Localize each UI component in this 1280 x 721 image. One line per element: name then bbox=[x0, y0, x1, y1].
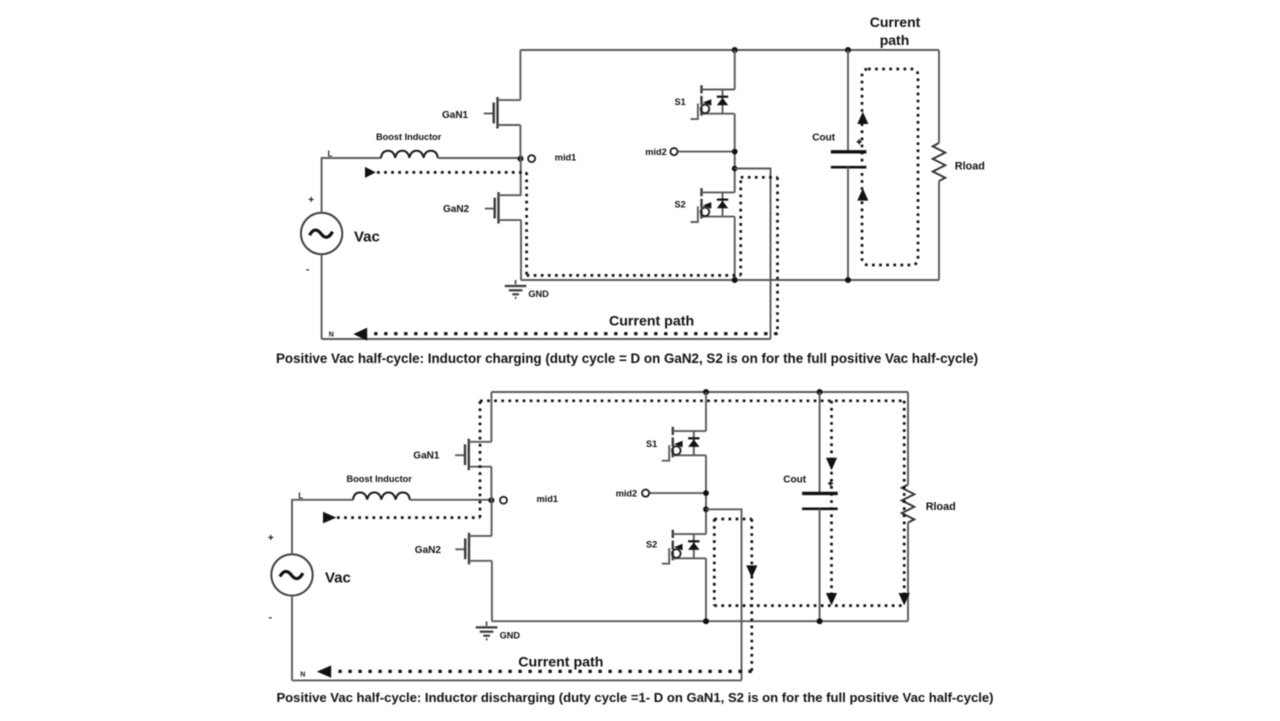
node stub junction dot (top) bbox=[732, 166, 738, 172]
node mid1 junction dot (top) bbox=[518, 156, 524, 162]
svg-text:Boost Inductor: Boost Inductor bbox=[347, 474, 413, 484]
wire stub from S branch to return rail (top) bbox=[735, 169, 771, 339]
current arrow right after inductor (bottom) bbox=[323, 512, 336, 524]
node mid1 junction dot (bottom) bbox=[488, 497, 494, 503]
wire top rail to Cout (top) bbox=[847, 50, 849, 151]
node Cout bridge junction dot (top) bbox=[845, 277, 851, 283]
transistor S2 (top) bbox=[691, 188, 735, 222]
transistor GaN1 (top) bbox=[484, 97, 521, 129]
transistor S1 (top) bbox=[691, 85, 735, 119]
svg-text:S2: S2 bbox=[646, 540, 657, 550]
svg-text:mid1: mid1 bbox=[555, 152, 576, 162]
wire mid1 to GaN2 drain (bottom) bbox=[491, 500, 493, 536]
svg-text:Cout: Cout bbox=[812, 133, 835, 144]
inductor Boost Inductor (top) bbox=[381, 151, 438, 158]
svg-text:mid1: mid1 bbox=[537, 494, 558, 504]
wire top rail to Cout (bottom) bbox=[819, 392, 821, 493]
node S-branch top rail junction (top) bbox=[732, 47, 738, 53]
wire top rail (bottom) bbox=[491, 391, 908, 393]
wire bridge bottom rail (bottom) bbox=[492, 620, 908, 622]
svg-text:GaN1: GaN1 bbox=[442, 110, 469, 121]
svg-text:path: path bbox=[880, 32, 910, 48]
svg-text:-: - bbox=[269, 612, 272, 623]
terminal mid1 open circle (top) bbox=[528, 155, 535, 162]
svg-text:+: + bbox=[268, 533, 274, 544]
wire dotted Cout-Rload loop rectangle (top) bbox=[862, 69, 918, 265]
svg-text:Boost Inductor: Boost Inductor bbox=[376, 132, 442, 142]
ground GND (bottom) bbox=[476, 621, 498, 639]
transistor S2 (bottom) bbox=[662, 530, 706, 564]
wire right rail lower (top) bbox=[938, 181, 940, 280]
wire dotted top rail path (bottom) bbox=[480, 399, 904, 402]
wire dotted bottom of output loop (bottom) bbox=[714, 604, 904, 607]
ac source Vac (bottom) bbox=[271, 554, 312, 595]
node Cout top rail junction dot (top) bbox=[845, 47, 851, 53]
wire Cout to bridge rail (top) bbox=[847, 167, 849, 280]
polarity plus of Cout (bottom) bbox=[828, 481, 833, 486]
polarity plus of Cout (top) bbox=[857, 139, 862, 144]
wire GaN1 source to mid1 (top) bbox=[519, 125, 521, 159]
wire dotted along bridge rail (top) bbox=[527, 274, 741, 277]
svg-text:L: L bbox=[298, 491, 303, 500]
svg-text:-: - bbox=[306, 265, 309, 276]
current arrow left on return path (bottom) bbox=[317, 665, 331, 677]
node mid2 junction dot (top) bbox=[732, 149, 738, 155]
wire dotted up beside S2 (top) bbox=[739, 177, 742, 275]
svg-text:GaN1: GaN1 bbox=[413, 451, 440, 462]
wire dotted left side of S2 loop (bottom) bbox=[713, 519, 716, 606]
transistor GaN2 (top) bbox=[485, 192, 522, 224]
wire dotted top of S2 loop (bottom) bbox=[714, 518, 752, 521]
svg-text:Current path: Current path bbox=[609, 313, 694, 329]
inductor Boost Inductor (bottom) bbox=[353, 493, 410, 500]
wire bridge bottom rail (top) bbox=[521, 279, 939, 281]
resistor Rload (bottom) bbox=[902, 485, 915, 523]
wire dotted bottom return path (bottom) bbox=[332, 670, 752, 673]
wire GaN2 source to bridge rail (top) bbox=[520, 220, 522, 280]
terminal mid2 open circle (bottom) bbox=[642, 490, 649, 497]
current arrow left on return path (top) bbox=[353, 328, 367, 341]
terminal mid2 open circle (top) bbox=[670, 148, 677, 155]
svg-text:N: N bbox=[329, 331, 334, 338]
current arrow up in loop upper (top) bbox=[857, 112, 868, 124]
svg-text:GaN2: GaN2 bbox=[415, 545, 442, 556]
svg-text:S1: S1 bbox=[675, 97, 686, 107]
wire Vac bottom lead (top) bbox=[321, 254, 323, 339]
wire dotted down to return path (top) bbox=[776, 177, 779, 333]
wire dotted over S2 loop top (top) bbox=[741, 176, 778, 179]
wire Cout to bridge rail (bottom) bbox=[819, 509, 821, 621]
wire dotted down through Cout (bottom) bbox=[830, 401, 833, 605]
svg-text:GND: GND bbox=[528, 289, 549, 299]
wire top rail (top) bbox=[520, 49, 939, 51]
svg-text:mid2: mid2 bbox=[645, 147, 666, 157]
wire bottom return rail (bottom) bbox=[292, 679, 742, 681]
svg-text:Current: Current bbox=[870, 14, 921, 30]
wire Vac top lead (bottom) bbox=[292, 500, 353, 554]
wire GaN1 drain to top rail (bottom) bbox=[490, 392, 492, 442]
ground GND (top) bbox=[505, 280, 527, 298]
node S-branch top rail junction (bottom) bbox=[703, 389, 709, 395]
wire S1 source to S2 drain (top) bbox=[734, 114, 736, 193]
current arrow up in loop lower (top) bbox=[857, 188, 868, 200]
current arrow down on S2 loop (bottom) bbox=[746, 565, 757, 577]
svg-text:mid2: mid2 bbox=[616, 488, 637, 498]
current arrow down through Cout lower (bottom) bbox=[826, 593, 837, 605]
node mid2 junction dot (bottom) bbox=[703, 490, 709, 496]
transistor S1 (bottom) bbox=[662, 427, 706, 461]
transistor GaN2 (bottom) bbox=[455, 533, 492, 565]
wire mid2 to S branch (top) bbox=[678, 151, 735, 153]
resistor Rload (top) bbox=[933, 143, 946, 181]
current arrow down on right loop (bottom) bbox=[899, 593, 910, 605]
wire inductor to mid1 (bottom) bbox=[410, 499, 491, 501]
svg-text:Vac: Vac bbox=[354, 229, 380, 246]
svg-text:Positive Vac half-cycle: Induc: Positive Vac half-cycle: Inductor discha… bbox=[276, 690, 993, 705]
wire top rail to S1 drain (bottom) bbox=[705, 392, 707, 431]
node S2 bridge junction dot (bottom) bbox=[703, 618, 709, 624]
wire top rail to S1 drain (top) bbox=[734, 50, 736, 90]
svg-text:GaN2: GaN2 bbox=[443, 204, 470, 215]
wire dotted bottom return path (top) bbox=[368, 332, 778, 335]
svg-text:Current path: Current path bbox=[518, 654, 603, 670]
current arrow down through Cout upper (bottom) bbox=[826, 458, 837, 470]
wire GaN1 drain to top rail (top) bbox=[519, 50, 521, 100]
wire right rail lower (bottom) bbox=[907, 523, 909, 622]
transistor GaN1 (bottom) bbox=[455, 439, 492, 471]
wire bottom return rail (top) bbox=[322, 338, 771, 340]
node Cout bridge junction dot (bottom) bbox=[817, 618, 823, 624]
svg-text:Vac: Vac bbox=[325, 570, 351, 587]
wire Vac bottom lead (bottom) bbox=[291, 596, 293, 681]
svg-text:S2: S2 bbox=[675, 200, 686, 210]
wire dotted up through GaN1 (bottom) bbox=[479, 401, 482, 518]
svg-text:Rload: Rload bbox=[955, 161, 985, 173]
wire dotted inductor current path (bottom) bbox=[337, 516, 480, 519]
svg-text:Cout: Cout bbox=[783, 474, 806, 485]
wire GaN1 source to mid1 (bottom) bbox=[490, 467, 492, 501]
wire right rail upper (top) bbox=[938, 50, 940, 143]
svg-text:Rload: Rload bbox=[926, 501, 956, 513]
capacitor Cout (bottom) bbox=[802, 493, 838, 508]
svg-text:N: N bbox=[300, 672, 305, 679]
wire dotted inductor current path (top) bbox=[377, 171, 527, 174]
wire stub from S branch to return rail (bottom) bbox=[706, 509, 742, 680]
wire inductor to mid1 (top) bbox=[438, 157, 520, 159]
wire GaN2 source to bridge rail (bottom) bbox=[491, 561, 493, 621]
wire dotted right side of S2 loop (bottom) bbox=[750, 519, 753, 671]
wire S1 source to S2 drain (bottom) bbox=[705, 455, 707, 534]
wire mid1 to GaN2 drain (top) bbox=[520, 159, 522, 196]
wire dotted down through GaN2 (top) bbox=[525, 172, 528, 275]
svg-text:S1: S1 bbox=[646, 439, 657, 449]
capacitor Cout (top) bbox=[831, 152, 867, 167]
node Cout top rail junction dot (bottom) bbox=[817, 389, 823, 395]
wire dotted down right of Rload loop (bottom) bbox=[903, 401, 906, 605]
node S2 bridge junction dot (top) bbox=[732, 277, 738, 283]
node stub junction dot (bottom) bbox=[703, 506, 709, 512]
wire S2 source to bridge rail (top) bbox=[734, 217, 736, 280]
wire mid2 to S branch (bottom) bbox=[650, 492, 706, 494]
current arrow right after inductor (top) bbox=[365, 167, 376, 178]
wire Vac top lead (top) bbox=[322, 158, 381, 213]
terminal mid1 open circle (bottom) bbox=[500, 497, 507, 504]
ac source Vac (top) bbox=[301, 213, 342, 254]
wire S2 source to bridge rail (bottom) bbox=[705, 558, 707, 621]
svg-text:GND: GND bbox=[500, 630, 521, 640]
wire right rail upper (bottom) bbox=[907, 392, 909, 485]
svg-text:Positive Vac half-cycle: Induc: Positive Vac half-cycle: Inductor chargi… bbox=[276, 351, 978, 366]
svg-text:L: L bbox=[328, 150, 333, 159]
svg-text:+: + bbox=[308, 195, 314, 206]
